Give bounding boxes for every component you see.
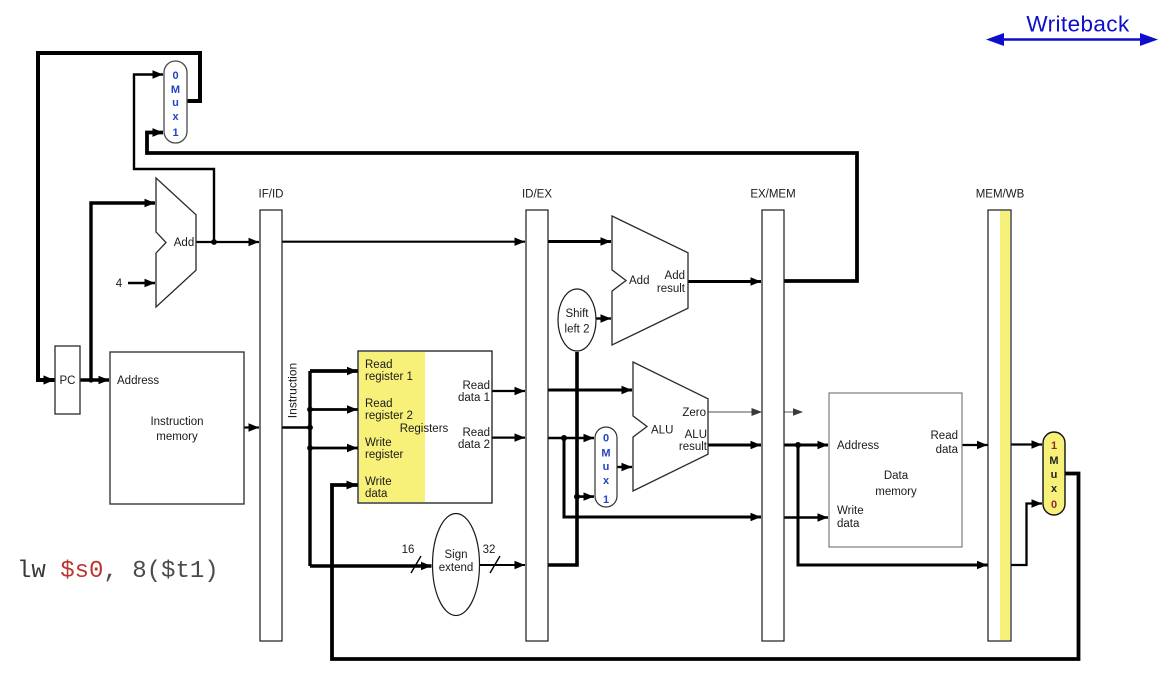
svg-text:M: M [1049, 455, 1058, 467]
junction: sign-extended to ALU mux tap [574, 494, 580, 500]
wire: branch target EX/MEM to mux M1 input 1 [147, 133, 857, 282]
svg-text:register: register [365, 449, 404, 461]
wire: PC to instruction memory Address [80, 378, 109, 381]
junction: write register tap [307, 445, 313, 451]
svg-text:Data: Data [884, 470, 909, 482]
svg-text:Instruction: Instruction [150, 416, 203, 428]
junction: read register 2 tap [307, 407, 313, 413]
svg-text:memory: memory [875, 486, 917, 498]
svg-text:x: x [1051, 483, 1058, 495]
svg-text:1: 1 [603, 494, 609, 506]
wire: constant 4 to Add input [128, 282, 155, 285]
svg-text:Read: Read [931, 430, 959, 442]
bus width slash 16 [411, 556, 421, 573]
wire: Sign extend to ID/EX [480, 564, 525, 566]
junction: ALU result tap [795, 442, 801, 448]
wire: instruction memory to IF/ID [244, 426, 259, 428]
svg-text:register 2: register 2 [365, 410, 413, 422]
mux M1 (PC source) [164, 61, 187, 143]
data memory block [829, 393, 962, 547]
wire: immediate field to Sign extend [310, 564, 432, 568]
shift left 2 unit [558, 289, 596, 351]
svg-text:0: 0 [603, 433, 609, 445]
instruction memory block [110, 352, 244, 504]
svg-text:Write: Write [837, 505, 864, 517]
svg-text:data 1: data 1 [458, 392, 490, 404]
junction: PC output node [88, 377, 93, 382]
svg-text:1: 1 [1051, 440, 1057, 452]
svg-text:Write: Write [365, 476, 392, 488]
wire: PC+4 to mux M1 input 0 [134, 75, 214, 243]
register file highlight [359, 352, 425, 502]
wire: IF/ID to ID/EX (PC+4) [282, 241, 525, 243]
svg-text:result: result [679, 441, 708, 453]
svg-text:Write: Write [365, 437, 392, 449]
svg-text:u: u [1051, 469, 1058, 481]
wire: EX/MEM write data to data memory [784, 516, 828, 518]
svg-text:EX/MEM: EX/MEM [750, 189, 795, 201]
svg-text:memory: memory [156, 431, 198, 443]
wire: read data 2 to EX/MEM write data [564, 438, 761, 517]
svg-text:u: u [603, 461, 610, 473]
wire: ID/EX Read data 1 to ALU [548, 389, 632, 392]
wire: ID/EX Read data 2 to mux M2 input 0 [548, 437, 594, 439]
PC register [55, 346, 80, 414]
wire: mux M1 output loop to PC input [38, 53, 200, 380]
svg-text:Shift: Shift [565, 308, 589, 320]
svg-text:M: M [171, 84, 180, 96]
wire: instruction riser [308, 371, 311, 566]
svg-text:32: 32 [483, 544, 496, 556]
svg-text:Read: Read [365, 359, 393, 371]
junction: read data 2 tap [561, 435, 567, 441]
svg-text:Registers: Registers [400, 423, 449, 435]
pipeline register IF/ID [260, 210, 282, 641]
wire: mux M2 output to ALU [617, 466, 632, 468]
mux M2 (ALU operand B) [595, 427, 617, 507]
svg-text:M: M [601, 448, 610, 460]
svg-text:u: u [172, 97, 179, 109]
wire: Shift left 2 to Add result [596, 317, 611, 319]
svg-text:extend: extend [439, 562, 474, 574]
wire: Add output to IF/ID (PC+4) [196, 241, 259, 243]
wire: ID/EX PC+4 to Add result [548, 240, 611, 243]
svg-text:1: 1 [172, 127, 178, 139]
svg-text:0: 0 [1051, 499, 1057, 511]
wire: sign-extended to mux M2 input 1 [577, 495, 594, 498]
wire: data memory Read data to MEM/WB [962, 444, 988, 446]
adder Add (PC+4) [156, 178, 196, 307]
svg-text:x: x [172, 111, 179, 123]
pipeline register ID/EX [526, 210, 548, 641]
wire: Read data 1 to ID/EX [492, 390, 525, 392]
wire: MEM/WB read data to mux M3 input 1 [1011, 443, 1042, 445]
svg-text:0: 0 [172, 70, 178, 82]
svg-text:Address: Address [117, 375, 159, 387]
svg-text:lw $s0, 8($t1): lw $s0, 8($t1) [17, 558, 219, 585]
svg-text:left 2: left 2 [565, 324, 590, 336]
svg-text:PC: PC [60, 375, 76, 387]
svg-text:data: data [837, 518, 860, 530]
wire: ID/EX sign-extended riser to Shift left 2 [548, 352, 577, 565]
svg-text:data: data [365, 488, 388, 500]
mux M3 (writeback select, highlighted) [1043, 432, 1065, 515]
stage banner arrow (blue double-headed) [1003, 38, 1141, 41]
junction: PC+4 node [211, 239, 217, 245]
adder Add result (branch target) [612, 216, 688, 345]
pipeline register EX/MEM [762, 210, 784, 641]
bus width slash 32 [490, 556, 500, 573]
wire: ALU result to MEM/WB [798, 445, 988, 565]
wire: EX/MEM ALU result to data memory Address [784, 444, 828, 447]
svg-text:ALU: ALU [651, 425, 673, 437]
svg-text:Sign: Sign [444, 549, 467, 561]
pipeline register MEM/WB (highlighted) [988, 210, 1011, 641]
svg-text:Address: Address [837, 440, 879, 452]
wire: Add result to EX/MEM [688, 280, 761, 283]
wire: ALU Zero to EX/MEM [708, 411, 752, 413]
svg-text:Instruction: Instruction [286, 363, 300, 418]
register file block [358, 351, 492, 503]
svg-text:x: x [603, 475, 610, 487]
wire: Read data 2 to ID/EX [492, 437, 525, 439]
ALU unit [633, 362, 708, 491]
svg-text:MEM/WB: MEM/WB [976, 189, 1025, 201]
svg-text:Add: Add [629, 275, 649, 287]
svg-text:Add: Add [174, 237, 194, 249]
svg-text:Read: Read [463, 380, 491, 392]
svg-text:result: result [657, 283, 686, 295]
wire: mux M3 output writeback loop to Write data [332, 474, 1079, 660]
svg-text:data 2: data 2 [458, 439, 490, 451]
wire: instruction to Read register 1 [310, 369, 358, 373]
wire: MEM/WB ALU result to mux M3 input 0 [1011, 504, 1042, 566]
svg-text:Read: Read [463, 427, 491, 439]
svg-text:ALU: ALU [685, 429, 707, 441]
wire: EX/MEM Zero out (branch) [784, 411, 794, 413]
wire: ALU result to EX/MEM [708, 444, 761, 447]
svg-text:IF/ID: IF/ID [259, 189, 284, 201]
svg-text:data: data [936, 444, 959, 456]
svg-text:register 1: register 1 [365, 371, 413, 383]
svg-text:Add: Add [665, 270, 685, 282]
svg-text:Writeback: Writeback [1026, 12, 1130, 37]
svg-text:Read: Read [365, 398, 393, 410]
wire: IF/ID instruction bus [282, 426, 310, 428]
svg-text:16: 16 [402, 544, 415, 556]
svg-text:ID/EX: ID/EX [522, 189, 552, 201]
wire: instruction to Write register [310, 447, 358, 450]
svg-text:Zero: Zero [682, 407, 706, 419]
wire: instruction to Read register 2 [310, 408, 358, 411]
wire: PC to Add input [91, 203, 155, 380]
svg-text:4: 4 [116, 278, 123, 290]
sign extend unit [433, 514, 480, 616]
junction: instruction bus node [307, 425, 313, 431]
